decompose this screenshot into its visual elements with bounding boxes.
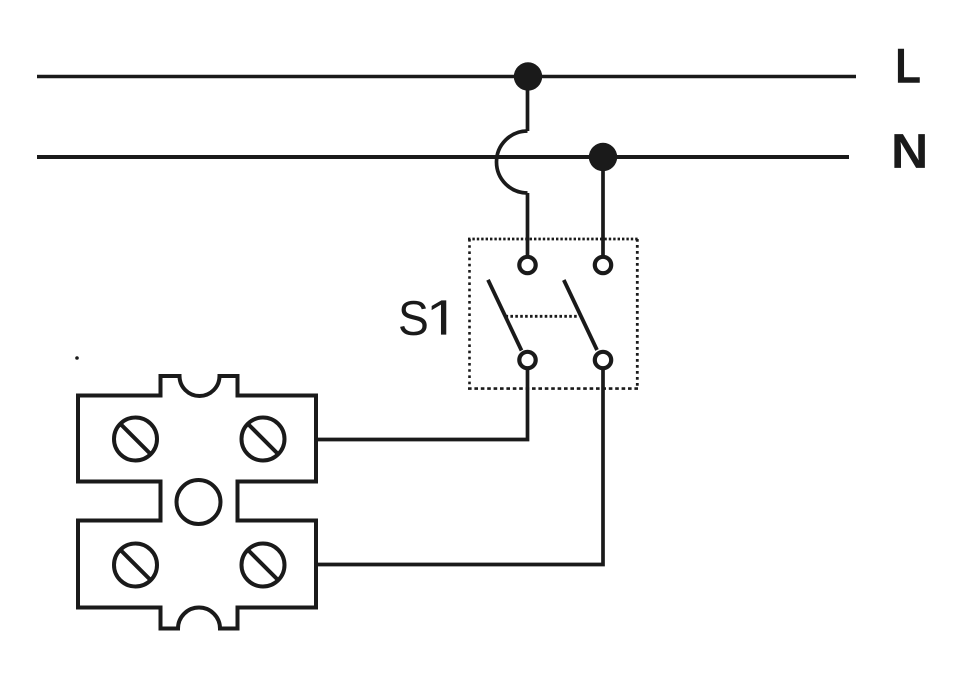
- junction dot on N line: [589, 143, 617, 171]
- wire from S1 bottom-left terminal to terminal block upper row: [316, 368, 528, 440]
- wire from S1 bottom-right terminal to terminal block lower row: [316, 368, 603, 565]
- terminal circle top-left of S1: [519, 257, 535, 273]
- terminal circle bottom-left of S1: [519, 352, 535, 368]
- label S1 letter S: [400, 301, 427, 336]
- wire L supply line: [37, 75, 856, 78]
- screw terminal upper-left: [114, 418, 157, 461]
- switch enclosure dashed box bottom edge: [468, 387, 639, 390]
- wire from N junction down to switch top-right terminal: [601, 157, 605, 257]
- wire hop over N line (half-circle): [497, 131, 528, 193]
- label S1 digit 1: [432, 300, 447, 334]
- mechanical coupling dotted link: [506, 315, 580, 318]
- switch enclosure dashed box left edge: [468, 239, 471, 389]
- terminal circle top-right of S1: [595, 257, 611, 273]
- wire N supply line: [37, 155, 849, 159]
- wire from L junction down to hop: [526, 76, 530, 131]
- node N label: [894, 134, 924, 168]
- switch lever pole 2: [564, 280, 597, 350]
- screw terminal lower-right: [242, 544, 285, 587]
- terminal block outline: [78, 376, 316, 629]
- stray dot mark: [75, 356, 79, 360]
- switch lever pole 1: [488, 280, 522, 351]
- switch enclosure dashed box right edge: [636, 239, 639, 389]
- wire from hop down to switch top-left terminal: [526, 193, 530, 257]
- node L label: [898, 49, 920, 83]
- junction dot on L line: [514, 62, 542, 90]
- screw terminal lower-left: [114, 544, 157, 587]
- switch S1 enclosure dashed box: [468, 238, 639, 241]
- terminal block center hole: [177, 480, 221, 524]
- terminal circle bottom-right of S1: [595, 352, 611, 368]
- screw terminal upper-right: [242, 418, 285, 461]
